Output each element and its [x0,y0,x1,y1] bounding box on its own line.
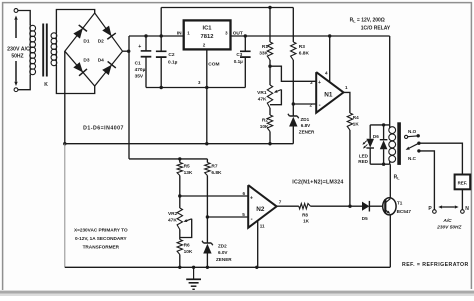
label transformer note [74,228,128,250]
transistor T1 [383,198,396,215]
svg-text:11: 11 [260,224,265,229]
node COM bus [205,86,208,89]
label N1 pin3 [310,80,313,85]
svg-text:+: + [318,80,321,86]
node + junction [127,50,130,53]
diode D6 [380,125,388,164]
arrow up [14,16,17,39]
label IN [177,31,182,37]
label N [465,206,469,212]
svg-text:VR1: VR1 [257,90,267,96]
label pin3 [225,31,228,36]
label N1 pin4 [325,70,328,75]
wire N2 pin5 [207,216,248,218]
wire LED D6 top bracket [370,124,390,126]
svg-text:RED: RED [358,159,368,164]
svg-text:VR2: VR2 [168,211,178,217]
svg-text:1K: 1K [353,122,360,127]
svg-text:R1: R1 [262,44,268,50]
node pin3 branch [268,65,271,68]
svg-text:6.8K: 6.8K [299,51,310,57]
wire ZD1 to ground rail [292,127,294,144]
mains span arrow [438,205,458,208]
svg-text:R2: R2 [262,118,268,124]
svg-text:+: + [138,44,141,50]
node D6 top [382,123,385,126]
svg-text:C2: C2 [168,52,174,58]
svg-text:+: + [250,196,253,202]
label A/C [442,218,452,224]
svg-text:3: 3 [310,80,313,85]
label D5 [362,216,368,221]
resistor R2 [267,115,272,132]
svg-text:N.C: N.C [408,156,417,161]
node ZD2 rail [206,266,209,269]
label 230V 50HZ [436,224,462,230]
REF load box [455,175,471,190]
label R4 [353,115,360,127]
svg-text:7: 7 [279,199,282,204]
label N1 pin1 [345,85,348,90]
resistor R1 [267,42,272,60]
node D6 bottom [382,163,385,166]
relay coil RL [389,126,396,164]
svg-text:REF. = REFRIGERATOR: REF. = REFRIGERATOR [402,262,469,268]
svg-text:35V: 35V [135,73,144,79]
svg-text:D4: D4 [98,58,104,64]
node C1 tap [144,34,147,37]
node N2 pin11 rail [255,266,258,269]
svg-text:13K: 13K [184,170,193,176]
IC1 7812 box [184,20,231,49]
wire VR2 to R6 [179,230,181,240]
svg-text:ZENER: ZENER [216,257,232,262]
svg-text:0-12V, 1A SECONDARY: 0-12V, 1A SECONDARY [75,236,127,241]
wire R1 to VR1 [269,60,271,85]
LED RED [362,125,374,164]
label T1 [397,201,412,214]
node top rail R1 tap [268,6,271,9]
resistor R8 [299,204,311,209]
node R5 top [178,157,181,160]
label 7812 [201,34,214,40]
relay core bar [397,122,401,165]
label N2 pin6 [242,191,245,196]
node C2 bus [160,86,163,89]
svg-text:ZENER: ZENER [299,130,315,135]
wire COM pin [206,49,208,143]
label pin1 [187,31,190,36]
wire REF to N [461,189,463,209]
svg-text:D3: D3 [83,58,89,64]
label N.O. [408,129,417,134]
wire N2 output [277,205,299,207]
label N2 pin7 [279,199,282,204]
svg-text:D1-D6=IN4007: D1-D6=IN4007 [83,125,124,131]
svg-text:10K: 10K [184,249,193,255]
wire R4 to base node [349,130,351,206]
terminal P [433,210,437,214]
svg-text:4: 4 [325,70,328,75]
label VR2 [168,211,178,224]
svg-text:50HZ: 50HZ [11,54,23,60]
wire upper ground rail [65,143,293,145]
label 50HZ [11,54,23,60]
wire VR1 to R2 [269,108,271,115]
wire R7 stub [206,159,208,163]
wire bottom ground rail [65,266,390,268]
node C3 tap [244,34,247,37]
label P [428,206,432,212]
relay N.C. contact [417,149,420,152]
transformer primary winding [30,24,36,76]
svg-text:1K: 1K [303,219,310,224]
wire bottom terminal to primary [18,75,30,90]
label relay line2 [361,26,391,32]
diode D3 [73,62,87,76]
wire R6 to bottom rail [179,255,181,268]
wire relay supply drop [389,36,391,126]
label pin2 [203,43,206,48]
svg-text:D5: D5 [362,216,368,221]
transformer secondary winding [51,32,57,66]
resistor R7 [205,163,210,176]
resistor R4 [347,113,352,130]
wire LED D6 bottom bracket [370,163,390,165]
node ground rail left [63,142,66,145]
svg-text:REF.: REF. [458,181,468,186]
label 230V A/C [7,46,30,52]
svg-text:R7: R7 [211,164,217,170]
arrow down [14,61,17,86]
svg-text:-: - [251,217,253,223]
svg-text:D1: D1 [83,38,89,44]
wire IN rail [129,35,184,37]
resistor R3 [291,42,296,60]
label R8 [302,212,310,223]
transformer core [43,24,47,77]
relay N.O. terminal [405,134,420,138]
wire bridge negative drop [64,51,66,144]
svg-text:D2: D2 [98,38,104,44]
diode D5 [362,201,369,212]
label COM [208,62,219,68]
svg-text:IN: IN [177,31,182,37]
svg-text:47K: 47K [168,218,177,224]
svg-text:IC2(N1+N2)=LM324: IC2(N1+N2)=LM324 [292,179,343,185]
label OUT [233,31,243,37]
ground symbol [186,267,201,289]
node COM rail [205,142,208,145]
wire secondary bottom to bridge [56,65,94,94]
label IC1 [202,25,212,31]
wire R3 riser [292,8,294,43]
label K [44,82,48,88]
op-amp N2 [248,185,276,228]
svg-text:N.O: N.O [408,129,417,134]
wire top rail riser [160,8,162,37]
node pin6 branch [178,194,181,197]
svg-text:N2: N2 [256,206,265,213]
label RL [394,174,401,180]
capacitor C2 [156,36,167,88]
resistor R6 [177,240,182,255]
wire pin2 branch [293,103,316,105]
label IC2 LM324 [292,179,343,185]
VR1 wiper [270,90,281,105]
wire N1 output [344,92,350,113]
wire pole to REF [419,143,463,174]
svg-text:X=230VAC PRIMARY TO: X=230VAC PRIMARY TO [74,228,128,233]
label ZD1 [299,117,315,135]
label R2 [260,118,269,131]
label D4 [98,58,104,64]
wire node to D5 [350,205,362,207]
terminal N [461,210,465,214]
svg-text:7812: 7812 [201,34,214,40]
zener ZD1 [288,114,299,127]
svg-text:N: N [465,206,469,212]
svg-text:N1: N1 [324,92,333,99]
wire R7 to ZD2 [206,176,208,244]
label R5 [184,164,193,177]
node R6 rail [178,266,181,269]
wire N.C. to P [419,151,435,210]
wire top terminal to primary [18,11,30,26]
svg-text:1C/O RELAY: 1C/O RELAY [361,26,391,32]
op-amp N1 [316,72,343,113]
node pin2 branch [292,102,295,105]
svg-text:6.0V: 6.0V [218,250,228,255]
svg-text:10K: 10K [260,124,269,130]
svg-text:2: 2 [203,43,206,48]
svg-text:TRANSFORMER: TRANSFORMER [83,245,120,250]
terminal bottom-left [14,88,18,92]
diode D1 [73,25,87,39]
svg-text:BC547: BC547 [397,209,412,214]
bridge diamond wires [65,13,123,86]
svg-text:470µ: 470µ [135,67,146,73]
svg-text:230V 50HZ: 230V 50HZ [436,224,462,230]
wire OUT rail [231,35,390,37]
wire T1 collector [389,164,391,198]
svg-text:IC1: IC1 [202,25,212,31]
svg-text:COM: COM [208,62,219,68]
svg-text:230V A/C: 230V A/C [7,46,30,52]
svg-text:R8: R8 [302,212,308,217]
svg-text:2: 2 [309,103,312,108]
node R2 rail [268,142,271,145]
wire divider feed [129,158,207,160]
potentiometer VR1 [267,85,272,108]
node N1 V+ tap [328,34,331,37]
label D3 [83,58,89,64]
svg-text:33K: 33K [259,51,268,57]
wire T1 emitter [389,214,391,267]
svg-text:C1: C1 [135,60,141,66]
label D1-D6=IN4007 [83,125,124,131]
label D1 [83,38,89,44]
resistor R5 [177,163,182,176]
label C1 [135,60,146,79]
wire R5 stub [179,159,181,163]
svg-text:A/C: A/C [442,218,452,224]
label N2 pin5 [242,212,245,217]
label D2 [98,38,104,44]
svg-text:D6: D6 [373,134,379,139]
svg-text:T1: T1 [397,201,403,206]
bottom scan band [0,291,474,296]
wire secondary top to bridge [56,10,94,34]
capacitor C3 [240,36,251,88]
svg-text:R3: R3 [299,44,305,50]
wire + riser and drop [128,36,130,159]
wire N2 pin11 [257,221,259,267]
node R4 R8 junction [348,205,351,208]
label VR1 [257,90,267,103]
svg-text:1: 1 [345,85,348,90]
wire ground link left [64,144,66,268]
svg-text:6.8K: 6.8K [211,170,222,176]
label D6 [373,134,379,139]
svg-text:R5: R5 [184,164,190,170]
label C1 plus [138,44,141,50]
svg-text:47K: 47K [258,96,267,102]
diode D2 [102,26,116,40]
node C2 tap [160,34,163,37]
wire capacitor ground bus [146,87,245,89]
node pin5 branch [206,215,209,218]
wire N1 V+ pin4 [329,36,331,82]
svg-text:RL = 12V, 200Ω: RL = 12V, 200Ω [350,17,385,23]
svg-text:K: K [44,82,48,88]
label R1 [259,44,268,57]
label N2 pin11 [260,224,265,229]
svg-text:R6: R6 [184,243,190,249]
wire R5 to VR2 [179,176,181,209]
svg-text:0.1µ: 0.1µ [168,60,178,66]
label REF refrigerator [402,262,469,268]
label C3 [234,52,243,64]
wire top rail [161,7,293,9]
potentiometer VR2 [177,208,182,230]
VR2 wiper [180,219,192,238]
svg-text:5: 5 [242,212,245,217]
svg-text:-: - [319,103,321,109]
svg-text:0.1µ: 0.1µ [234,59,243,64]
label N1 pin2 [309,103,312,108]
wire R2 to ground rail [269,132,271,144]
svg-text:6.8V: 6.8V [301,123,311,128]
wire R8 to node [311,205,351,207]
label R6 [184,243,193,256]
svg-text:ZD2: ZD2 [218,244,227,249]
svg-text:R4: R4 [353,115,359,120]
wire bridge + output [123,50,130,52]
label R7 [211,164,222,177]
wire R1 riser [269,8,271,43]
capacitor C1 [141,36,152,88]
svg-text:LED: LED [359,153,369,158]
wire ZD2 to bottom rail [206,254,208,268]
label N.C. [408,156,417,161]
node ground symbol rail [192,266,195,269]
wire D5 to T1 base [369,205,384,207]
wire R3 to ZD1 [292,60,294,116]
label R3 [299,44,310,57]
wire N2 pin6 [180,195,248,197]
svg-text:C3: C3 [236,52,242,57]
terminal top-left [14,9,18,13]
label C2 [168,52,178,65]
label relay line1 [350,17,385,23]
label pin3 com [198,80,201,85]
label ZD2 [216,244,232,262]
diode D4 [102,61,116,75]
svg-text:6: 6 [242,191,245,196]
zener ZD2 [202,241,213,254]
svg-text:ZD1: ZD1 [301,117,310,122]
label LED RED [358,153,368,163]
relay armature [406,142,421,150]
wire pin3 branch [270,66,316,81]
